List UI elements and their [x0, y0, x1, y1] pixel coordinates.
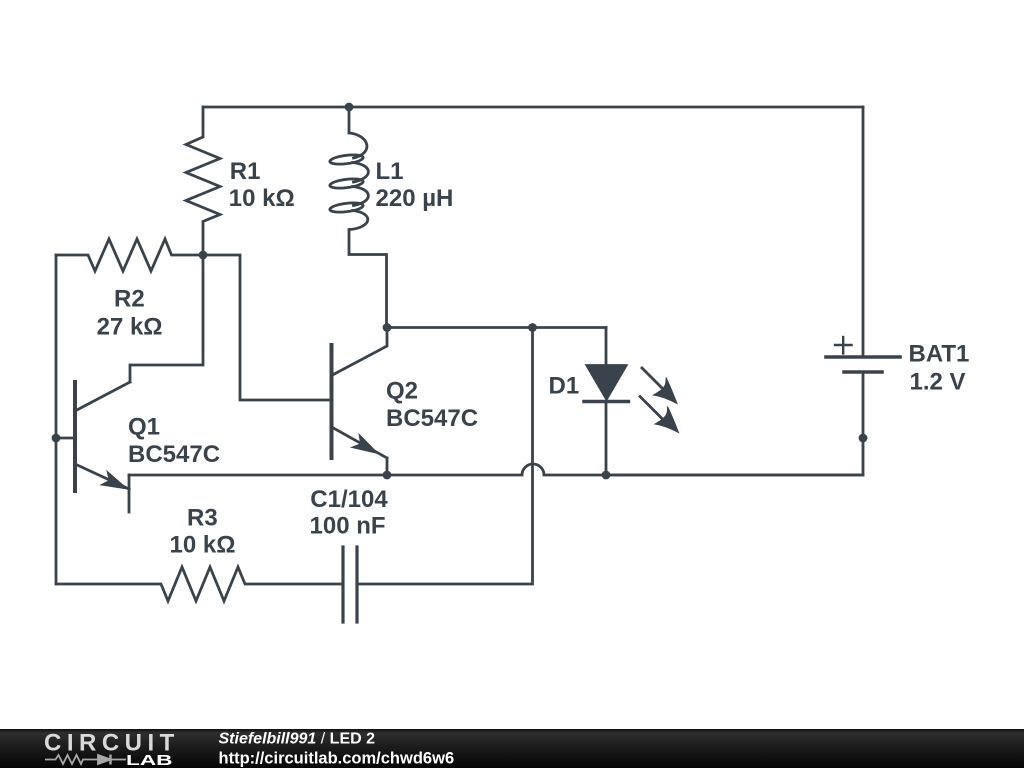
svg-text:BAT1: BAT1: [909, 341, 970, 368]
svg-text:1.2 V: 1.2 V: [910, 369, 966, 396]
D1 light arrow 1: [642, 368, 677, 404]
node junction D1 bottom: [602, 471, 611, 480]
node junction Q2 collector: [383, 323, 392, 332]
wire left rail: [55, 255, 58, 584]
wire emitter rail: [129, 464, 863, 475]
svg-text:Q2: Q2: [386, 378, 418, 405]
svg-text:R3: R3: [187, 504, 218, 531]
node junction C1 branch top: [528, 323, 537, 332]
node junction L1 top: [345, 103, 354, 112]
inductor L1: [329, 107, 386, 328]
capacitor C1: [343, 547, 357, 622]
wire battery top lead: [862, 107, 865, 357]
svg-text:BC547C: BC547C: [386, 405, 478, 432]
wire node to Q2 base: [203, 255, 332, 400]
D1 light arrow 2: [640, 397, 679, 433]
wire top rail from R1 to BAT1: [203, 106, 863, 109]
wire collector to D1: [387, 326, 606, 329]
svg-text:Stiefelbill991 / LED 2: Stiefelbill991 / LED 2: [219, 731, 376, 748]
svg-text:C1/104: C1/104: [310, 486, 388, 513]
wire C1 branch vertical: [357, 328, 533, 585]
node junction R1-R2: [199, 251, 208, 260]
svg-text:100 nF: 100 nF: [310, 513, 386, 540]
logo wire with resistor and diode: [45, 755, 126, 765]
diode D1 LED: [584, 328, 629, 476]
svg-text:R1: R1: [230, 158, 261, 185]
svg-text:BC547C: BC547C: [128, 441, 220, 468]
svg-text:http://circuitlab.com/chwd6w6: http://circuitlab.com/chwd6w6: [219, 750, 455, 768]
resistor R3: [56, 567, 343, 601]
node junction Q1 base: [52, 434, 61, 443]
svg-text:27 kΩ: 27 kΩ: [97, 314, 163, 341]
resistor R1: [186, 107, 220, 255]
transistor Q1: [56, 382, 130, 512]
node junction Q2 emitter: [383, 471, 392, 480]
svg-text:10 kΩ: 10 kΩ: [229, 185, 295, 212]
battery BAT1: [606, 337, 900, 475]
svg-text:LAB: LAB: [126, 753, 173, 768]
svg-text:Q1: Q1: [128, 413, 160, 440]
svg-text:220 µH: 220 µH: [376, 185, 454, 212]
svg-text:R2: R2: [114, 286, 145, 313]
svg-text:10 kΩ: 10 kΩ: [170, 531, 236, 558]
transistor Q2: [332, 328, 388, 476]
wire Q1 collector routing: [130, 255, 203, 382]
node junction BAT1 negative terminal: [859, 434, 868, 443]
svg-text:L1: L1: [376, 158, 404, 185]
resistor R2: [56, 239, 203, 271]
svg-text:D1: D1: [549, 373, 580, 400]
